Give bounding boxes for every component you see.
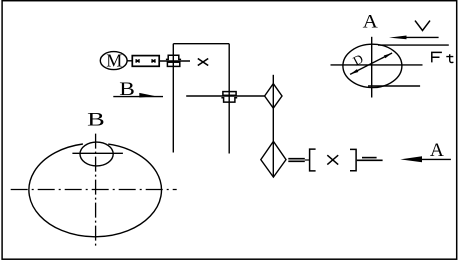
tangent line top: [378, 44, 449, 46]
wire motor to belt box: [127, 60, 132, 62]
wire nut2 to diamond: [186, 95, 264, 97]
centerline vertical workpiece: [95, 134, 97, 248]
wire vertical through diamonds: [272, 75, 274, 177]
wheel shaft line: [72, 152, 123, 154]
arrow V: [389, 36, 439, 40]
cross mark X2: [327, 155, 338, 164]
belt drive box: [132, 56, 159, 67]
bracket left: [310, 149, 316, 171]
wheel centerline vertical: [371, 37, 373, 98]
leadscrew nut N2: [221, 92, 237, 103]
svg-text:A: A: [430, 141, 445, 161]
wire vertical left column: [172, 44, 174, 153]
leadscrew nut N1: [166, 55, 181, 66]
cross mark X1: [198, 59, 208, 66]
wire top connecting: [173, 43, 229, 45]
svg-text:B: B: [87, 110, 105, 130]
bracket right: [350, 149, 356, 170]
workpiece ellipse: [29, 144, 162, 237]
bevel gear diamond small: [265, 84, 282, 109]
coupling equals 1: [288, 159, 309, 162]
arrow A feed: [400, 156, 451, 162]
coupling equals 2: [357, 158, 383, 161]
arrow B: [113, 93, 163, 98]
wheel centerline horizontal: [331, 64, 423, 66]
svg-text:A: A: [363, 13, 379, 33]
grinding wheel circle small: [80, 142, 113, 166]
wheel circle top right: [343, 44, 402, 87]
label V: [415, 21, 430, 31]
dimension line D: [350, 53, 392, 74]
svg-text:M: M: [106, 50, 122, 70]
wire vertical right column: [228, 44, 230, 154]
tangent line bottom: [368, 85, 420, 87]
bevel gear diamond large: [261, 141, 286, 177]
wire box to leadscrew: [159, 60, 190, 62]
centerline horizontal workpiece: [11, 189, 177, 191]
label F t: [432, 52, 454, 62]
motor M: [100, 50, 127, 70]
